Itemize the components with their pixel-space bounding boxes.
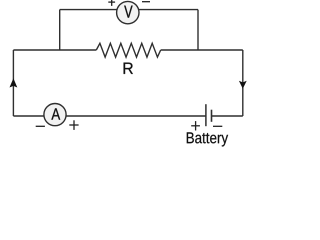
ammeter polarity + (69, 120, 78, 130)
voltmeter polarity - (142, 1, 150, 3)
wire: right vertical wire (242, 50, 244, 116)
wire: bottom wire left segment (ammeter to battery + plate) (13, 115, 206, 117)
wire: left vertical wire (12, 50, 14, 116)
ammeter A1 circle (44, 104, 66, 126)
wire: top main wire right segment (161, 49, 243, 51)
wire: top main wire left segment (13, 49, 96, 51)
ammeter label A (51, 108, 60, 119)
battery polarity - (213, 125, 222, 127)
current arrow (down) on right wire (239, 81, 247, 89)
current arrow (up) on left wire (10, 78, 18, 87)
voltmeter polarity + (108, 0, 115, 6)
resistor value label R (124, 63, 133, 74)
wire: voltmeter branch right vertical (197, 10, 199, 50)
wire: voltmeter branch left vertical (59, 10, 61, 50)
wire: voltmeter branch horizontal (60, 9, 198, 11)
battery long plate (+) (205, 104, 207, 126)
voltmeter U1 circle (117, 1, 139, 23)
voltmeter label V (124, 6, 132, 18)
resistor R (96, 43, 160, 57)
battery short plate (-) (211, 110, 213, 122)
wire: bottom wire right segment (battery - plate to right corner) (212, 115, 243, 117)
battery name label (187, 132, 228, 146)
ammeter polarity - (36, 125, 45, 127)
battery polarity + (191, 121, 200, 130)
